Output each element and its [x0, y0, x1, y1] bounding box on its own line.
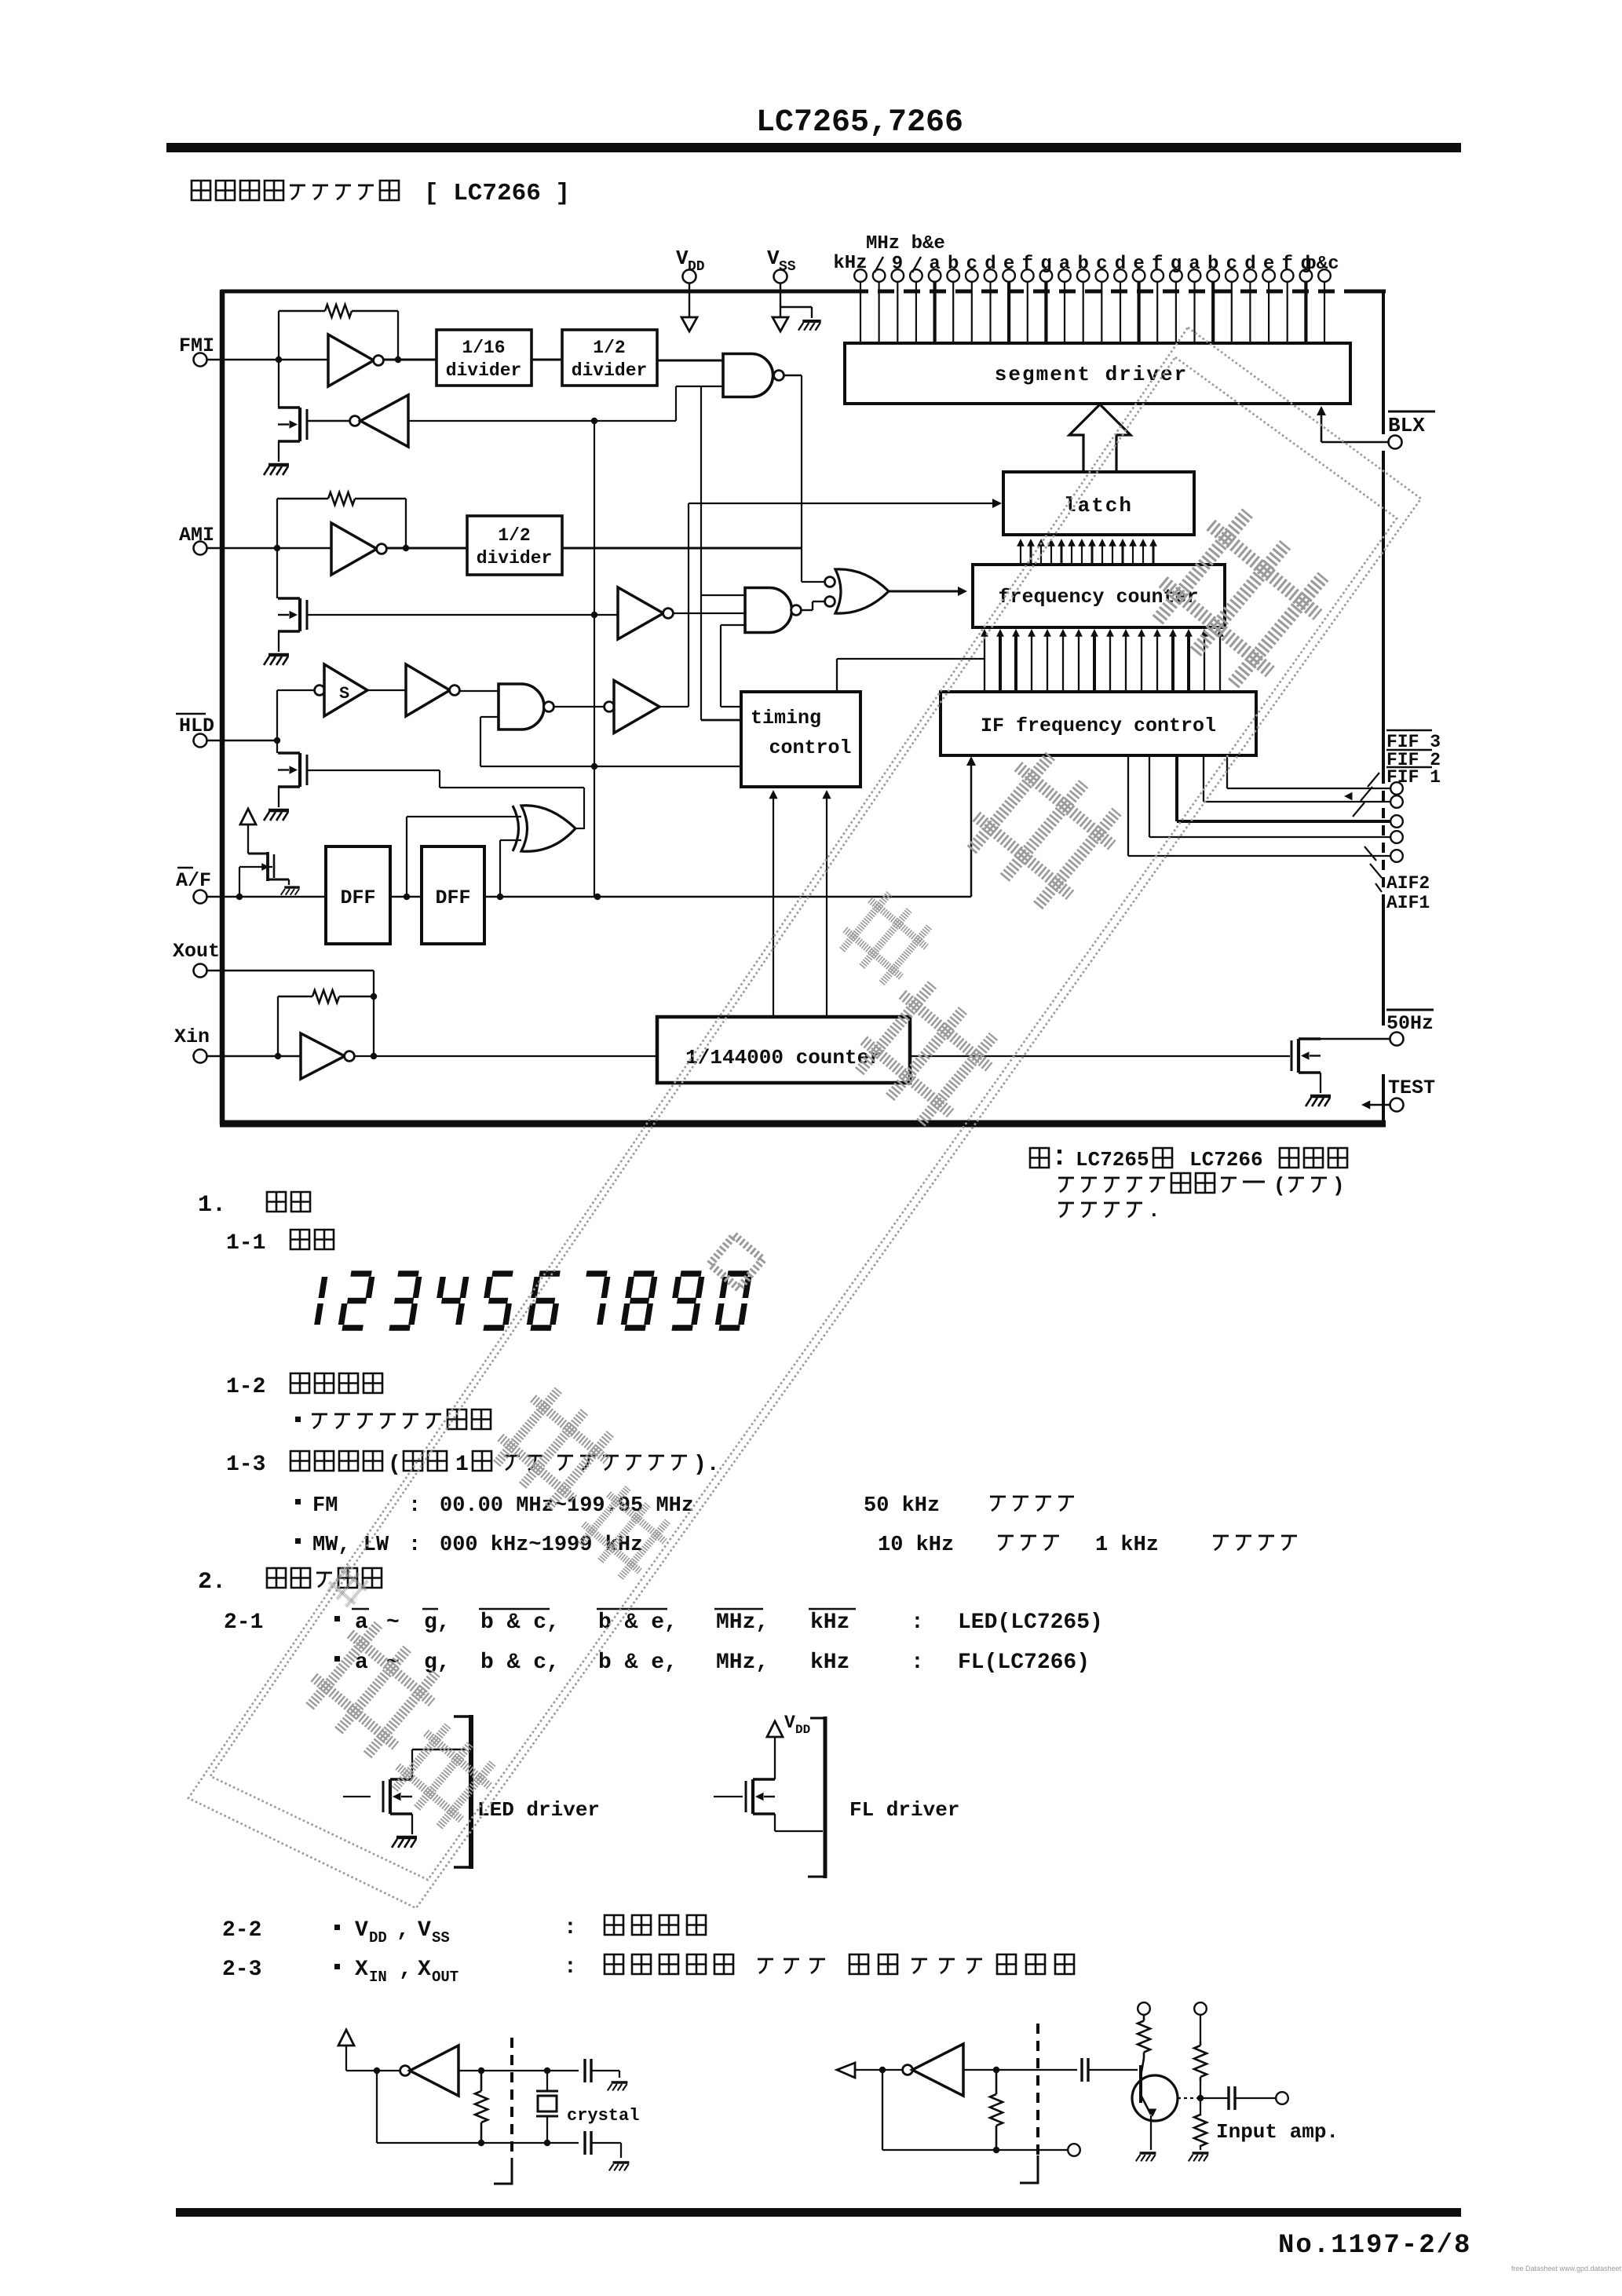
wire TEST stub	[1364, 1104, 1390, 1106]
wire Q1 source to ground	[278, 441, 279, 462]
svg-text:LC7265,7266: LC7265,7266	[756, 105, 963, 141]
capacitor C2	[583, 2131, 586, 2155]
VDD-style triangle input amp	[837, 2063, 855, 2078]
svg-text:g: g	[1171, 254, 1182, 275]
chip outer border bottom	[220, 1121, 1386, 1128]
svg-text:1-1: 1-1	[226, 1231, 265, 1256]
labels FIF3 FIF2 FIF1	[1386, 729, 1432, 732]
svg-text:Xin: Xin	[174, 1026, 210, 1048]
DFF block 2	[422, 846, 484, 944]
svg-text:LED(LC7265): LED(LC7265)	[958, 1610, 1103, 1635]
svg-text:1: 1	[455, 1453, 469, 1477]
wire Q5 source to ground	[1320, 1073, 1321, 1093]
svg-text:50Hz: 50Hz	[1386, 1012, 1434, 1035]
watermark outer frame	[188, 327, 1421, 1908]
node U13 output	[371, 1053, 377, 1059]
svg-text:DD: DD	[795, 1723, 810, 1737]
svg-text:c: c	[1096, 254, 1107, 275]
wire Q3 source to ground	[278, 787, 279, 807]
chip boundary dashed bar crystal	[510, 2038, 513, 2158]
svg-text:b & c,: b & c,	[480, 1651, 560, 1675]
pin HLD	[176, 713, 206, 715]
wire timing control to frequency counter bus	[836, 659, 838, 692]
svg-text:timing: timing	[751, 707, 821, 729]
node resistor R5 top	[993, 2067, 999, 2073]
transistor Q6 LED driver	[343, 1796, 371, 1797]
svg-text:V: V	[355, 1918, 368, 1943]
resistor R7	[1200, 2042, 1202, 2046]
wire Q2 gate to mute net	[307, 614, 594, 616]
wire Q1 gate from U2	[307, 420, 355, 422]
VDD symbol crystal circuit	[338, 2030, 354, 2046]
svg-text:DFF: DFF	[435, 887, 470, 909]
svg-text:A/F: A/F	[176, 869, 211, 892]
IF frequency control block	[941, 692, 1256, 755]
junction R1 output	[395, 356, 401, 363]
NAND gate U9	[499, 684, 544, 729]
inverter U2 left-pointing	[350, 416, 360, 426]
svg-text::: :	[564, 1916, 577, 1940]
section 2-1 line 2	[334, 1656, 340, 1662]
svg-text:frequency counter: frequency counter	[998, 586, 1198, 609]
svg-text:g: g	[1040, 254, 1051, 275]
svg-text:TEST: TEST	[1388, 1077, 1435, 1099]
wire DFF1 to DFF2	[390, 896, 422, 898]
wire mute net to U5	[594, 614, 618, 616]
wire U6 output zigzag to NOR	[801, 609, 813, 611]
capacitor C1	[583, 2059, 586, 2082]
7-segment digits 1234567890	[317, 1277, 325, 1325]
transistor Q7 FL driver	[714, 1796, 743, 1797]
ground at Q3	[269, 809, 289, 813]
svg-text:IF frequency control: IF frequency control	[981, 715, 1216, 737]
wire HLD up to S inverter	[276, 690, 278, 740]
wire U8 to NAND3	[459, 690, 499, 692]
svg-text:(: (	[388, 1453, 401, 1477]
svg-text:LED driver: LED driver	[477, 1798, 600, 1822]
FM range line	[295, 1499, 301, 1504]
node mute net bottom	[594, 894, 601, 900]
transistor Q5 50Hz output	[1299, 1037, 1321, 1040]
svg-text:b: b	[1077, 254, 1088, 275]
wire XOR bottom input	[500, 839, 521, 841]
svg-text:e: e	[1133, 254, 1144, 275]
junction on mute net at timing wire	[591, 763, 597, 770]
wire Q6 source to ground	[411, 1814, 413, 1834]
svg-text::: :	[564, 1955, 577, 1980]
svg-text:a: a	[1189, 254, 1200, 275]
svg-text:f: f	[1281, 254, 1292, 275]
LED display electrode bar	[469, 1715, 473, 1869]
segment driver block	[845, 343, 1350, 404]
wire U15 input line	[963, 2069, 1077, 2071]
wire A/F to IF frequency control	[970, 760, 973, 897]
svg-text:d: d	[1115, 254, 1126, 275]
wire IF to AIF1 pin	[1127, 755, 1129, 856]
svg-text:Input amp.: Input amp.	[1216, 2120, 1339, 2144]
wire U7 to U8	[367, 689, 406, 691]
watermark glyph 6	[572, 1481, 676, 1585]
svg-text::: :	[911, 1651, 924, 1675]
svg-text:OUT: OUT	[432, 1969, 458, 1986]
svg-text:,: ,	[399, 1958, 412, 1982]
wire T1 collector resistor R6	[1143, 2015, 1145, 2058]
footer rule	[176, 2208, 1461, 2217]
svg-text:00.00 MHz~199.95 MHz: 00.00 MHz~199.95 MHz	[440, 1494, 694, 1518]
svg-text:b: b	[1207, 254, 1218, 275]
svg-text:Xout: Xout	[173, 940, 220, 963]
svg-text:10 kHz: 10 kHz	[878, 1534, 954, 1557]
svg-text:BLX: BLX	[1388, 414, 1425, 437]
node Xin junction	[275, 1053, 281, 1059]
frequency counter block	[973, 565, 1225, 627]
mute net vertical	[594, 421, 595, 897]
header rule	[166, 143, 1461, 152]
MW LW range line	[295, 1538, 301, 1544]
transistor T1 input amp	[1132, 2075, 1178, 2121]
svg-text:FM: FM	[312, 1494, 338, 1518]
watermark glyph 3	[834, 887, 937, 990]
node HLD junction	[274, 737, 280, 744]
ground at R8	[1200, 2145, 1201, 2150]
chip outer border right	[1382, 290, 1385, 434]
wire VDD to Q7	[774, 1737, 776, 1779]
svg-text:a: a	[1059, 254, 1070, 275]
svg-text:c: c	[1226, 254, 1237, 275]
node between DFFs	[404, 894, 410, 900]
transistor Q2 AMI mute	[276, 548, 278, 598]
pin AIF2	[1390, 831, 1403, 843]
wire IF to FIF2 pin	[1203, 755, 1204, 802]
svg-text:1/2: 1/2	[498, 525, 530, 546]
svg-text:1-2: 1-2	[226, 1375, 265, 1399]
ground at T1	[1140, 2152, 1156, 2155]
svg-text:e: e	[1003, 254, 1014, 275]
svg-text:No.1197-2/8: No.1197-2/8	[1278, 2231, 1471, 2261]
wire AM divider output	[562, 547, 802, 550]
latch strobe wire from timing chain	[689, 503, 997, 504]
feedback wire FMI	[278, 311, 279, 360]
svg-text:d: d	[985, 254, 995, 275]
node crystal top	[544, 2067, 550, 2074]
node resistor top	[478, 2067, 484, 2074]
svg-text:g,: g,	[424, 1610, 451, 1635]
node bias junction	[1197, 2095, 1204, 2101]
svg-text:50 kHz: 50 kHz	[864, 1494, 940, 1518]
wire U9 output to U11	[553, 706, 605, 707]
ground at Q6	[396, 1836, 417, 1840]
resistor R3 oscillator feedback	[278, 996, 312, 998]
svg-text:MW, LW: MW, LW	[312, 1534, 389, 1557]
svg-text:MHz b&e: MHz b&e	[866, 233, 945, 254]
svg-text:kHz: kHz	[810, 1651, 849, 1675]
wire Xout down to oscillator output	[373, 971, 374, 1056]
svg-text:b & c,: b & c,	[480, 1610, 560, 1635]
svg-text:LC7266: LC7266	[1189, 1148, 1263, 1172]
transistor Q1 FMI mute	[278, 360, 279, 408]
pin FIF1	[1390, 815, 1403, 828]
svg-text:crystal: crystal	[567, 2106, 639, 2126]
pin FIF2	[1390, 795, 1403, 808]
svg-text:kHz: kHz	[810, 1610, 849, 1635]
svg-text:1/16: 1/16	[462, 338, 505, 358]
crystal X1	[546, 2071, 548, 2090]
wire into NAND1 lower input	[675, 386, 677, 421]
latch block	[1003, 472, 1194, 535]
junction mute net at Q2 gate	[591, 612, 597, 618]
svg-text:divider: divider	[572, 360, 648, 381]
node on Xout vertical at resistor	[371, 993, 377, 1000]
svg-text:MHz,: MHz,	[716, 1651, 769, 1675]
svg-text:.: .	[1148, 1199, 1160, 1223]
note line 2	[1058, 1178, 1074, 1192]
resistor R8	[1200, 2115, 1202, 2115]
svg-text:~: ~	[386, 1610, 400, 1635]
wire 1/16 to 1/2 divider	[532, 359, 562, 361]
pin A/F	[177, 867, 193, 868]
svg-text:1/2: 1/2	[593, 338, 625, 358]
watermark glyph 5	[486, 1381, 621, 1516]
wire VDD to Q4	[247, 824, 249, 854]
pin FIF3	[1390, 782, 1403, 795]
wire Q3 gate to XOR output net	[307, 770, 440, 771]
timing control to counter wire 1	[773, 792, 774, 1017]
1/144000 counter block	[657, 1017, 910, 1083]
svg-text:DFF: DFF	[340, 887, 375, 909]
inverter U1 FMI	[328, 335, 374, 386]
wire U3 output	[784, 375, 802, 377]
inverter U14 left-pointing	[400, 2066, 411, 2076]
wire oscillator top	[458, 2070, 579, 2071]
svg-text:X: X	[418, 1958, 431, 1982]
svg-text:FL(LC7266): FL(LC7266)	[958, 1651, 1090, 1675]
pointer slashes FIF	[1368, 773, 1379, 787]
wire NAND3 lower input to timing control	[480, 716, 499, 718]
wire XOR top input	[407, 816, 521, 817]
resistor R5	[995, 2070, 998, 2094]
wire Q7 source to FL electrode	[774, 1814, 776, 1831]
XOR gate U12	[513, 806, 519, 851]
heading 等価回路ブロック図 [ LC7266 ]	[192, 181, 210, 200]
svg-text:IN: IN	[369, 1969, 387, 1986]
FL display electrode bar	[824, 1717, 827, 1878]
svg-text:V: V	[767, 247, 780, 270]
svg-text:a: a	[929, 254, 940, 275]
transistor Q3 HLD	[276, 740, 278, 753]
node crystal loop left	[374, 2067, 380, 2074]
svg-text:b & e,: b & e,	[598, 1610, 678, 1635]
svg-text:DD: DD	[369, 1929, 387, 1947]
svg-text:S: S	[339, 684, 349, 704]
node after DFF2	[497, 894, 503, 900]
ground at VSS	[802, 320, 820, 323]
bus arrow latch to segment driver	[1069, 404, 1131, 472]
svg-text::: :	[408, 1494, 421, 1518]
chip outer border left	[220, 290, 225, 1124]
watermark glyph 4	[846, 974, 1006, 1134]
pin 50Hz	[1386, 1009, 1434, 1011]
svg-text:X: X	[355, 1958, 368, 1982]
watermark glyph 8	[385, 1718, 502, 1834]
1/16 divider block	[437, 330, 532, 386]
svg-text:): )	[1332, 1174, 1345, 1197]
svg-text:control: control	[769, 737, 851, 759]
wire U13 to counter	[354, 1055, 657, 1057]
svg-text:f: f	[1022, 254, 1033, 275]
svg-text:FL driver: FL driver	[849, 1798, 959, 1822]
resistor R2 AMI feedback	[277, 498, 328, 500]
watermark glyph 1	[1142, 499, 1339, 696]
svg-text:FIF 1: FIF 1	[1386, 767, 1441, 788]
wire R3 left leg	[277, 996, 279, 1056]
node Q4 gate on A/F wire	[236, 894, 243, 900]
svg-text:LC7265: LC7265	[1076, 1148, 1149, 1172]
svg-text:2-1: 2-1	[224, 1610, 263, 1635]
svg-text:MHz,: MHz,	[716, 1610, 769, 1635]
inverter U15 left-pointing	[903, 2065, 913, 2075]
svg-text:1.: 1.	[198, 1192, 226, 1219]
VDD symbol FL driver	[767, 1721, 783, 1737]
svg-text:2.: 2.	[198, 1569, 226, 1596]
junction R2 output	[403, 545, 409, 551]
capacitor C4	[1200, 2097, 1229, 2099]
ground at Q4	[284, 886, 300, 888]
pin circle collector	[1138, 2002, 1150, 2015]
svg-text:V: V	[418, 1918, 431, 1943]
static lighting bullet line	[295, 1417, 301, 1422]
svg-text:g,: g,	[424, 1651, 451, 1675]
inverter U4 AMI	[331, 523, 377, 575]
note line 1	[1030, 1148, 1049, 1168]
wire Q4 gate	[239, 866, 272, 868]
DFF block 1	[326, 846, 390, 944]
bias branch	[1194, 2002, 1207, 2015]
wire U4 to 1/2 divider	[386, 547, 467, 550]
VSS down-arrow symbol	[780, 307, 781, 317]
display output pins kHz..b&c	[854, 269, 867, 282]
svg-text:b&c: b&c	[1305, 254, 1339, 275]
wire XOR output	[575, 828, 584, 829]
ground at C2	[620, 2143, 622, 2158]
svg-text::: :	[911, 1610, 924, 1635]
wire U11 output up to latch strobe	[659, 706, 689, 707]
pin circle output	[1276, 2092, 1288, 2104]
wire Q2 source to ground	[278, 631, 279, 652]
bus latch-frequency counter	[1020, 543, 1021, 565]
svg-text:1-3: 1-3	[226, 1453, 265, 1477]
inverter U7 with S	[315, 686, 325, 696]
svg-text:f: f	[1152, 254, 1163, 275]
BLX pin	[1388, 411, 1435, 413]
ground at Q2	[269, 653, 289, 657]
wire U1 to 1/16 divider	[383, 359, 437, 361]
svg-text:9: 9	[892, 254, 903, 275]
svg-text:b: b	[948, 254, 959, 275]
bus frequency counter - IF frequency control	[984, 633, 985, 692]
wire Q4 source to ground	[288, 879, 290, 885]
wire counter to Q5 gate	[910, 1055, 1290, 1057]
NOR gate U10 into frequency counter	[825, 577, 835, 587]
feedback wire AMI	[276, 499, 278, 548]
VSS ground branch wire	[780, 306, 812, 308]
wire U2 input net	[408, 420, 676, 422]
wire IF to AIF2 pin	[1149, 755, 1150, 837]
svg-text:).: ).	[693, 1453, 720, 1477]
svg-text:b & e,: b & e,	[598, 1651, 678, 1675]
svg-text:e: e	[1263, 254, 1274, 275]
wire node B to NAND2 upper input	[701, 594, 745, 596]
ground at Q5	[1310, 1095, 1331, 1099]
NAND gate U3	[723, 354, 773, 397]
svg-text:2-2: 2-2	[222, 1918, 261, 1943]
svg-text:AIF2: AIF2	[1386, 873, 1430, 894]
wire T1 emitter to ground	[1150, 2115, 1152, 2150]
inverter U5	[618, 587, 663, 639]
chip boundary dashed bar input amp	[1036, 2024, 1039, 2155]
node input amp left	[879, 2067, 886, 2073]
watermark glyph 9	[324, 1563, 371, 1610]
wire VDD to inverter input	[345, 2046, 347, 2071]
wire NAND2 lower input to timing control	[721, 624, 745, 626]
svg-text:2-3: 2-3	[222, 1958, 261, 1982]
svg-text:1/144000 counter: 1/144000 counter	[685, 1046, 882, 1069]
wire Q5 drain to 50Hz pin	[1321, 1038, 1390, 1040]
dotted wire T1 to bias node	[1178, 2097, 1200, 2099]
svg-text:AIF1: AIF1	[1386, 893, 1430, 913]
svg-text:[ LC7266 ]: [ LC7266 ]	[424, 180, 570, 207]
pin circle bottom	[1068, 2144, 1080, 2156]
wire node B to timing control	[700, 386, 702, 720]
1/2 divider block AM	[467, 516, 562, 575]
watermark inner frame	[210, 357, 1397, 1880]
VDD symbol at Q4	[240, 809, 256, 824]
pointer slashes AIF	[1364, 846, 1376, 861]
svg-text:(: (	[1273, 1174, 1286, 1197]
pointer slashes to MHz and b&e	[875, 257, 883, 272]
capacitor C3	[1080, 2058, 1083, 2082]
wire Q6 drain up	[411, 1749, 413, 1779]
ground at Q1	[269, 463, 289, 467]
node AMI junction	[274, 545, 280, 551]
wire IF to FIF1 pin	[1175, 755, 1178, 821]
wire 1/2 divider to NAND1	[657, 360, 723, 362]
inverter U8	[406, 664, 450, 716]
transistor Q4 A/F pull-up	[248, 853, 268, 855]
inverter U11 with input bubble	[605, 702, 615, 712]
wire IF to FIF3 pin	[1226, 755, 1228, 788]
watermark glyph 2	[958, 744, 1131, 917]
chip outer border top	[221, 290, 852, 294]
oscillator bottom wire	[376, 2071, 378, 2143]
resistor R4	[480, 2071, 483, 2091]
wire to inverter U15	[855, 2069, 903, 2071]
wire BLX to segment driver	[1321, 441, 1388, 444]
svg-text:SS: SS	[432, 1929, 450, 1947]
svg-text:divider: divider	[446, 360, 522, 381]
timing control to counter wire 2	[826, 792, 827, 1017]
node FMI junction	[276, 356, 282, 363]
svg-text:V: V	[676, 247, 689, 270]
wire NOR to frequency counter	[889, 590, 963, 593]
1/2 divider block FM	[562, 330, 657, 386]
VDD down-arrow symbol	[681, 317, 697, 331]
timing control block	[741, 692, 860, 787]
wire A/F line to IF control	[484, 896, 971, 898]
input amp bottom wire	[882, 2070, 883, 2150]
wire U5 to NAND2	[673, 612, 745, 614]
junction mute net top	[591, 418, 597, 424]
resistor R1 FMI feedback	[279, 310, 325, 313]
